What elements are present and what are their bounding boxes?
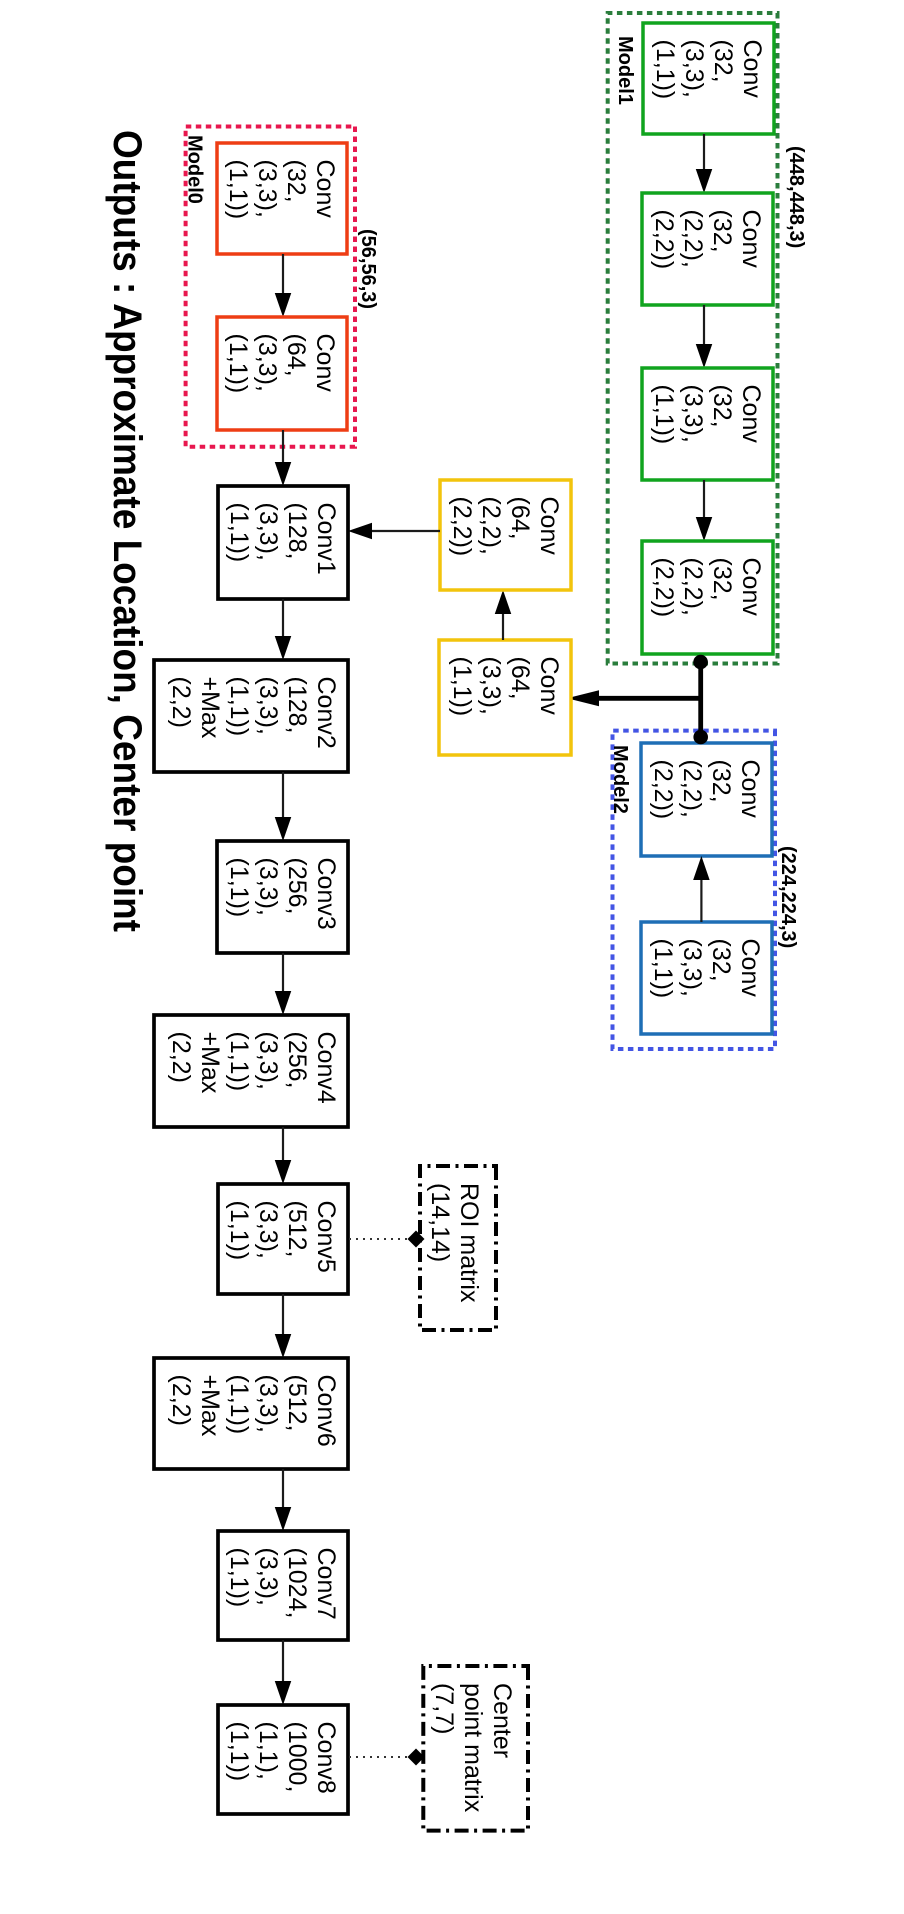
conv box Model1-1 Conv(32,(3,3),(1,1)) xyxy=(643,23,774,134)
svg-text:Model1: Model1 xyxy=(614,36,636,105)
conv box Merge-2 Conv(64,(2,2),(2,2)) xyxy=(440,480,571,590)
conv box Conv6 (+Max) xyxy=(154,1358,348,1469)
svg-text:(448,448,3): (448,448,3) xyxy=(785,146,807,248)
svg-text:Model0: Model0 xyxy=(184,135,206,204)
diamond head at Center point matrix xyxy=(408,1749,425,1766)
arrow Conv3 to Conv4 xyxy=(275,953,292,1015)
conv box Model1-2 Conv(32,(2,2),(2,2)) xyxy=(642,193,773,305)
dash-dot output frame ROI matrix xyxy=(420,1166,496,1330)
conv box Conv4 (+Max) xyxy=(154,1015,348,1127)
conv box Model2-1 Conv(32,(2,2),(2,2)) xyxy=(641,743,772,856)
arrow Model2-2 to Model2-1 xyxy=(693,856,710,922)
arrow Conv2 to Conv3 xyxy=(275,772,292,841)
dashed group frame Model0 xyxy=(186,127,355,447)
arrow Model1-2 to Model1-3 xyxy=(696,305,713,368)
junction dot at Model1 output xyxy=(693,655,708,670)
arrow Merge-2 down to Conv1 xyxy=(348,523,440,540)
conv box Conv7 xyxy=(218,1531,348,1640)
arrow Model0-1 to Model0-2 xyxy=(275,254,292,317)
arrow Conv1 to Conv2 xyxy=(275,599,292,660)
svg-text:(56,56,3): (56,56,3) xyxy=(357,229,379,309)
junction dot at Model2 output xyxy=(693,730,708,745)
dotted connector Conv8 to Center point matrix xyxy=(348,1756,407,1758)
arrow Conv6 to Conv7 xyxy=(275,1469,292,1531)
conv box Model2-2 Conv(32,(3,3),(1,1)) xyxy=(641,922,772,1034)
junction wire down to merge Conv xyxy=(597,696,701,701)
dashed group frame Model2 xyxy=(613,731,776,1049)
conv box Conv2 (+Max) xyxy=(154,660,348,772)
thick arrowhead into merge Conv xyxy=(567,690,599,706)
dotted connector Conv5 to ROI matrix xyxy=(348,1238,407,1240)
conv box Conv5 xyxy=(218,1184,348,1294)
svg-text:Model2: Model2 xyxy=(609,745,631,814)
diamond head at ROI matrix xyxy=(408,1231,425,1248)
conv box Model0-1 Conv(32,(3,3),(1,1)) xyxy=(217,143,347,254)
conv box Model1-4 Conv(32,(2,2),(2,2)) xyxy=(642,541,773,654)
dashed group frame Model1 xyxy=(608,13,778,664)
dash-dot output frame Center point matrix xyxy=(423,1666,528,1831)
conv box Conv8 xyxy=(218,1705,348,1814)
junction wire Model1-out to Model2-out xyxy=(698,662,703,737)
conv box Merge-1 Conv(64,(3,3),(1,1)) xyxy=(439,640,571,755)
conv box Model0-2 Conv(64,(3,3),(1,1)) xyxy=(217,317,347,430)
arrow Model0-2 to Conv1 xyxy=(275,430,292,486)
conv box Conv1 xyxy=(218,486,348,599)
svg-text:(224,224,3): (224,224,3) xyxy=(777,846,799,948)
arrow Conv7 to Conv8 xyxy=(275,1640,292,1705)
arrow Conv4 to Conv5 xyxy=(275,1127,292,1184)
arrow Model1-3 to Model1-4 xyxy=(696,480,713,541)
arrow Model1-1 to Model1-2 xyxy=(696,134,713,193)
conv box Conv3 xyxy=(217,841,348,953)
conv box Model1-3 Conv(32,(3,3),(1,1)) xyxy=(642,368,773,480)
arrow Merge-1 to Merge-2 xyxy=(495,590,512,640)
arrow Conv5 to Conv6 xyxy=(275,1294,292,1358)
svg-text:Outputs : Approximate Location: Outputs : Approximate Location, Center p… xyxy=(105,130,149,932)
